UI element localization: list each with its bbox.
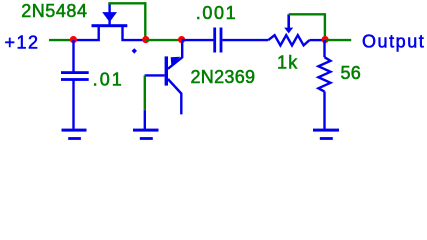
- wire wiper to node D (green): [289, 14, 325, 39]
- JFET Q1 gate stem: [108, 20, 110, 26]
- svg-text:2N5484: 2N5484: [21, 1, 87, 21]
- capacitor C1 bottom plate: [61, 78, 89, 81]
- wire node D to Output (green): [325, 39, 351, 41]
- ground symbol (R2): [313, 129, 339, 140]
- transistor Q2 emitter lead from node C: [168, 41, 182, 69]
- wire R1 to node D: [309, 39, 325, 41]
- ground symbol (C1): [62, 129, 87, 140]
- probe point diamond: [132, 48, 137, 53]
- svg-text:.01: .01: [93, 69, 124, 89]
- wire C2 to R1: [222, 39, 268, 41]
- wire C1 to ground: [72, 81, 74, 129]
- transistor Q2 base lead: [145, 74, 165, 76]
- transistor Q2 base bar: [165, 56, 168, 85]
- svg-text:+12: +12: [5, 32, 40, 52]
- svg-text:1k: 1k: [277, 52, 298, 72]
- node A junction: [70, 36, 77, 43]
- svg-text:2N2369: 2N2369: [191, 67, 256, 87]
- JFET Q1 gate lead: [108, 3, 110, 12]
- wire base to ground upper (green): [144, 75, 146, 110]
- node C junction: [178, 36, 185, 43]
- capacitor C1 top plate: [61, 71, 89, 74]
- resistor R2 56 zigzag: [318, 57, 330, 91]
- wire node A down to C1: [72, 40, 74, 72]
- svg-text:Output: Output: [362, 32, 425, 52]
- transistor Q2 collector lead: [168, 79, 181, 114]
- node D junction: [322, 36, 329, 43]
- svg-text:.001: .001: [196, 3, 237, 23]
- wire R2 to ground: [323, 92, 325, 131]
- capacitor C2 left plate: [213, 28, 216, 53]
- JFET Q1 drain leg to node B: [123, 26, 146, 40]
- wire node B to node C (green): [146, 39, 182, 41]
- JFET Q1 2N5484 channel bar: [92, 24, 128, 27]
- svg-text:56: 56: [341, 63, 362, 83]
- node B junction: [142, 36, 149, 43]
- wire node D to R2: [323, 40, 325, 57]
- wire base to ground lower (blue): [144, 110, 146, 129]
- potentiometer wiper lead: [287, 14, 290, 28]
- wire node A to JFET source leg: [73, 26, 98, 40]
- capacitor C2 right plate: [220, 28, 223, 53]
- resistor R1 1k zigzag: [268, 35, 309, 45]
- potentiometer wiper arrowhead: [284, 28, 293, 34]
- wire node C to C2: [182, 39, 214, 41]
- ground symbol (Q2 base): [133, 129, 159, 140]
- transistor Q2 emitter arrowhead: [171, 57, 181, 67]
- JFET Q1 gate arrow: [102, 12, 117, 22]
- wire +12 supply to node A: [49, 39, 73, 41]
- wire gate feedback loop (green): [108, 3, 145, 39]
